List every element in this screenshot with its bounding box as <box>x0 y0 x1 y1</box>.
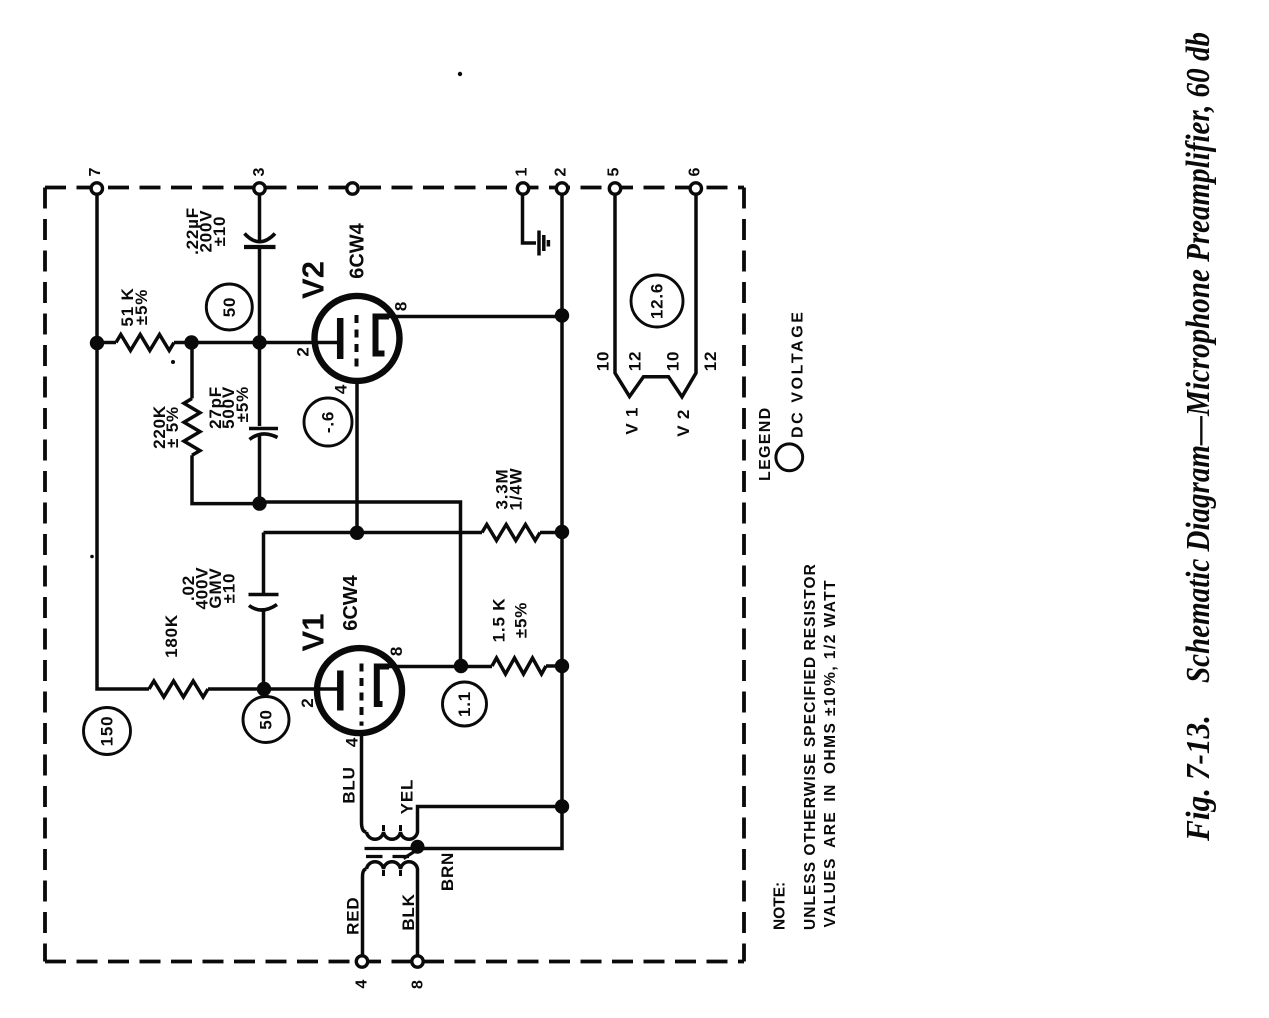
svg-text:YEL: YEL <box>398 779 417 814</box>
svg-text:1.5 K: 1.5 K <box>490 598 509 643</box>
svg-text:4: 4 <box>343 737 362 747</box>
svg-text:50: 50 <box>220 297 239 318</box>
svg-text:-.6: -.6 <box>319 411 338 433</box>
svg-text:8: 8 <box>387 646 406 656</box>
svg-text:5: 5 <box>606 167 623 176</box>
svg-text:6CW4: 6CW4 <box>340 574 362 630</box>
svg-text:2: 2 <box>294 346 313 356</box>
svg-text:V 1: V 1 <box>623 407 642 435</box>
svg-text:150: 150 <box>98 716 117 747</box>
svg-text:10: 10 <box>664 351 683 372</box>
svg-text:6: 6 <box>687 167 704 176</box>
svg-text:4: 4 <box>354 979 371 988</box>
svg-text:180K: 180K <box>162 614 181 658</box>
svg-text:10: 10 <box>594 351 613 372</box>
svg-text:Schematic Diagram—Microphone P: Schematic Diagram—Microphone Preamplifie… <box>1180 32 1217 683</box>
svg-text:6CW4: 6CW4 <box>347 222 369 278</box>
svg-text:±10: ±10 <box>210 216 229 247</box>
svg-text:±5%: ±5% <box>512 602 531 638</box>
svg-text:12: 12 <box>701 351 720 372</box>
svg-text:1/4W: 1/4W <box>507 467 526 510</box>
svg-text:V2: V2 <box>296 261 331 299</box>
svg-text:3: 3 <box>251 167 268 176</box>
svg-text:12: 12 <box>626 351 645 372</box>
svg-text:V1: V1 <box>296 614 331 652</box>
svg-text:7: 7 <box>87 167 104 176</box>
svg-text:BLU: BLU <box>340 766 359 803</box>
svg-text:8: 8 <box>410 980 427 989</box>
svg-text:Fig. 7-13.: Fig. 7-13. <box>1180 715 1217 842</box>
svg-text:V 2: V 2 <box>674 409 693 437</box>
svg-text:1: 1 <box>514 167 531 176</box>
svg-text:BRN: BRN <box>438 852 457 891</box>
svg-text:12.6: 12.6 <box>648 283 667 319</box>
svg-text:LEGEND: LEGEND <box>757 407 774 481</box>
svg-text:±10: ±10 <box>220 573 239 604</box>
svg-text:UNLESS OTHERWISE SPECIFIED RES: UNLESS OTHERWISE SPECIFIED RESISTOR <box>802 563 819 930</box>
svg-text:8: 8 <box>392 301 411 311</box>
svg-text:VALUES ARE IN OHMS ±10%, 1/2 W: VALUES ARE IN OHMS ±10%, 1/2 WATT <box>822 579 839 928</box>
svg-text:BLK: BLK <box>399 893 418 930</box>
svg-text:± 5%: ± 5% <box>163 406 182 448</box>
svg-text:±5%: ±5% <box>132 289 151 325</box>
svg-text:DC VOLTAGE: DC VOLTAGE <box>790 309 807 438</box>
svg-text:NOTE:: NOTE: <box>772 882 789 930</box>
svg-text:1.1: 1.1 <box>455 691 474 717</box>
svg-text:RED: RED <box>344 897 363 935</box>
svg-text:4: 4 <box>332 384 351 394</box>
svg-text:2: 2 <box>298 697 317 707</box>
svg-text:±5%: ±5% <box>233 386 252 422</box>
svg-text:50: 50 <box>257 709 276 730</box>
svg-text:2: 2 <box>553 167 570 176</box>
